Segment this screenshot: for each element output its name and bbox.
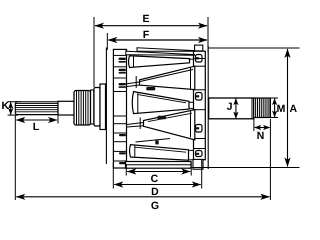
claw pole wedge W5 (points right, bottom) bbox=[130, 145, 189, 161]
E dim line bbox=[95, 25, 207, 27]
plain shaft before journal bbox=[58, 101, 76, 115]
top silhouette band far bbox=[137, 48, 195, 52]
ring bbox=[91, 90, 94, 124]
W3 chamfer line bbox=[138, 95, 186, 103]
G dim line bbox=[16, 196, 269, 198]
ext line E left bbox=[93, 17, 95, 87]
front plate column outline bbox=[113, 49, 126, 168]
ext line L left bbox=[14, 115, 16, 201]
claw pole wedge W3 (points right) bbox=[132, 92, 189, 114]
ext line L right bbox=[57, 115, 59, 124]
embossed mark on W2 bbox=[146, 87, 155, 90]
N ext left bbox=[253, 119, 255, 132]
K arrow bbox=[10, 102, 12, 114]
M arrow bbox=[274, 99, 276, 117]
top silhouette band near bbox=[126, 51, 195, 55]
L label bbox=[33, 123, 38, 130]
C dim line bbox=[127, 171, 190, 173]
spline lines bbox=[16, 103, 59, 111]
rear plate top tab bbox=[195, 45, 203, 51]
W4 chamfer line bbox=[148, 113, 192, 121]
bottom pole band inner line bbox=[126, 164, 192, 166]
claw pole wedge W1 (points right, top) bbox=[129, 56, 190, 68]
front plate divisions bbox=[113, 55, 126, 161]
F dim line bbox=[108, 39, 207, 41]
claw pole wedge W4 (points left) bbox=[144, 110, 195, 140]
C ext left bbox=[125, 164, 127, 176]
N dim line bbox=[255, 127, 270, 129]
E label bbox=[143, 15, 149, 22]
claw pole wedge W2 (points left) bbox=[140, 66, 195, 89]
A label bbox=[290, 105, 297, 112]
rear face line bbox=[207, 46, 209, 169]
D ext right bbox=[201, 160, 203, 189]
slip-ring end shaft (dim J) bbox=[209, 98, 254, 119]
K top tick bbox=[8, 101, 21, 103]
front plate notch marks bbox=[119, 58, 127, 165]
threaded end (dims M,N) bbox=[254, 98, 271, 118]
shaft step before thread bbox=[251, 98, 253, 118]
flange bbox=[100, 84, 106, 130]
K label bbox=[2, 102, 9, 109]
bottom pole band bbox=[126, 162, 192, 169]
C label bbox=[151, 175, 158, 182]
rear plate divisions bbox=[194, 66, 206, 148]
background claw tip tick bbox=[155, 140, 158, 144]
L dim line bbox=[16, 119, 57, 121]
N label bbox=[257, 132, 263, 139]
K bottom tick bbox=[8, 114, 18, 116]
N ext right / G ext right bbox=[269, 119, 271, 200]
J label bbox=[227, 103, 232, 110]
A dim line bbox=[287, 49, 289, 167]
A top ext line bbox=[209, 47, 300, 49]
W5 chamfer line bbox=[135, 147, 186, 152]
D ext left bbox=[112, 163, 114, 189]
wedge tip connector lines bbox=[127, 59, 194, 160]
rear plate notch marks bbox=[196, 55, 203, 157]
ext line E/F right bbox=[207, 17, 209, 53]
M ticks bbox=[271, 97, 278, 99]
C ext right bbox=[190, 162, 192, 176]
splined shaft section (dim L) bbox=[15, 102, 58, 115]
wedge root step lines bbox=[134, 56, 191, 156]
rear column extra division bbox=[194, 58, 206, 60]
A bottom ext line bbox=[191, 167, 300, 169]
collar bbox=[94, 88, 100, 127]
front face line bbox=[105, 48, 107, 165]
G label bbox=[151, 202, 158, 209]
embossed mark on W4 bbox=[158, 116, 167, 119]
rear plate bottom tab bbox=[193, 159, 203, 169]
W2 chamfer line bbox=[140, 70, 193, 82]
rear plate column outline bbox=[194, 51, 206, 160]
D label bbox=[152, 188, 158, 195]
ext line F left bbox=[106, 33, 108, 50]
knurled bearing journal bbox=[74, 91, 91, 126]
D dim line bbox=[114, 184, 200, 186]
M label bbox=[277, 105, 284, 112]
F label bbox=[143, 31, 148, 38]
background claw edge under W4 bbox=[136, 139, 171, 143]
